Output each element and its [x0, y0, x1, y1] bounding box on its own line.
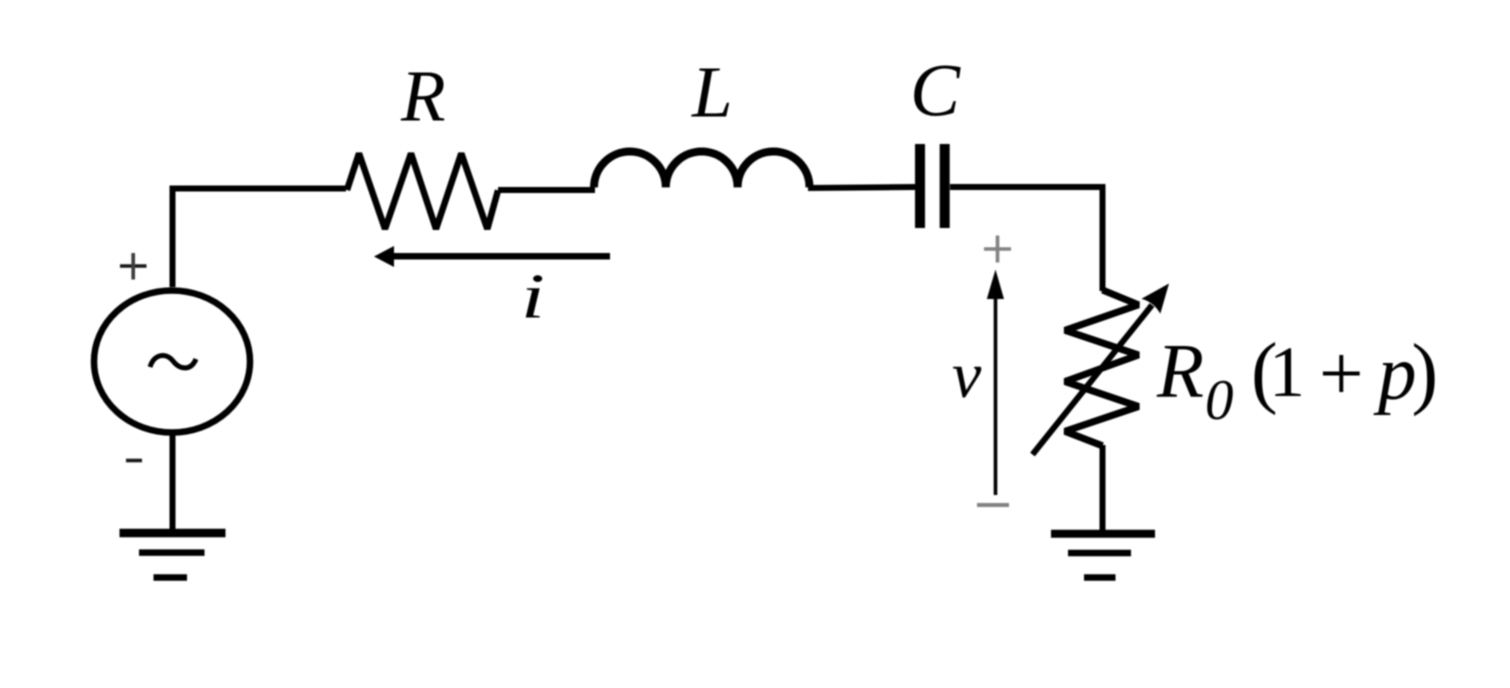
polarity plus near source	[120, 253, 147, 280]
minus sign below v arrow	[977, 503, 1009, 507]
wire between R and L	[498, 187, 595, 193]
wire from C to right corner and down	[950, 187, 1103, 291]
svg-text:p: p	[1373, 330, 1417, 416]
wire left riser and top-left segment	[173, 189, 347, 288]
svg-text:0: 0	[1205, 369, 1234, 432]
capacitor C	[920, 144, 945, 228]
svg-text:i: i	[521, 261, 545, 332]
svg-text:L: L	[691, 52, 733, 133]
plus sign above v arrow	[984, 236, 1011, 263]
inductor L	[594, 151, 810, 187]
resistor R	[347, 153, 498, 229]
wire from variable resistor to right ground	[1100, 445, 1106, 530]
svg-text:v: v	[952, 339, 982, 412]
label R0 (1 + p)	[1156, 328, 1438, 433]
svg-text:1: 1	[1269, 332, 1305, 412]
polarity minus near source	[126, 459, 142, 463]
svg-text:+: +	[1319, 331, 1364, 418]
variable resistor R0(1+p) zigzag	[1065, 290, 1139, 446]
svg-text:R: R	[1156, 328, 1204, 414]
voltage arrow v	[987, 270, 1004, 496]
svg-text:): )	[1412, 329, 1439, 417]
ground left	[120, 533, 226, 578]
wire from source to left ground	[170, 432, 176, 530]
ground right	[1051, 534, 1155, 578]
svg-text:R: R	[400, 56, 446, 137]
variable resistor diagonal arrow	[1033, 284, 1170, 455]
current arrow i	[374, 246, 610, 267]
wire between L and C	[808, 187, 915, 188]
ac source V1	[94, 291, 250, 433]
svg-text:C: C	[910, 50, 961, 133]
label i	[521, 261, 545, 332]
